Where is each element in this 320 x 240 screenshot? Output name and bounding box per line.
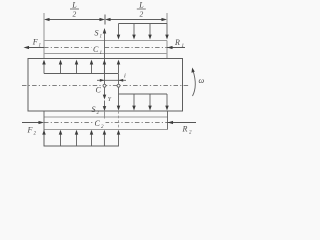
svg-text:R: R (174, 38, 180, 47)
svg-text:1: 1 (100, 51, 103, 56)
label C1 (92, 44, 104, 56)
svg-text:1: 1 (39, 44, 42, 49)
center vertical lower (104, 111, 106, 127)
Y axis arrow down (103, 87, 107, 99)
force F1 arrow (24, 38, 45, 50)
distributed load block bottom-left (arrows up) (42, 130, 120, 147)
svg-text:C: C (93, 45, 99, 54)
distributed load block upper-left (arrows up) (42, 60, 120, 74)
svg-text:2: 2 (140, 10, 144, 19)
mid rotation axis dash-dot (22, 85, 190, 87)
lower band top gray line (44, 116, 168, 118)
label C2 (93, 119, 106, 131)
dimension tick center (104, 15, 106, 25)
svg-text:1: 1 (100, 35, 103, 40)
svg-text:1: 1 (182, 44, 185, 49)
force F2 arrow (22, 121, 44, 137)
omega rotation arrow (191, 68, 204, 97)
upper band top gray line (44, 40, 167, 42)
reaction R2 arrow (168, 121, 197, 136)
rotor body rectangle (28, 59, 183, 112)
svg-text:ω: ω (199, 76, 205, 85)
distributed load block mid-right (arrows down) (117, 74, 169, 111)
svg-text:2: 2 (97, 111, 100, 116)
band edge vertical left (43, 111, 45, 147)
svg-text:F: F (27, 126, 33, 135)
label S1 (95, 29, 103, 40)
axis C2 dash-dot (44, 122, 168, 124)
svg-text:L: L (71, 1, 77, 10)
eccentricity i arrow (97, 73, 126, 82)
label S2 (92, 105, 100, 116)
extension line left x=44 (43, 13, 45, 59)
svg-text:2: 2 (34, 132, 37, 137)
svg-text:C: C (96, 86, 102, 95)
extension line right x=167 (166, 13, 168, 24)
label L/2 left (70, 1, 79, 19)
axis C1 dash-dot (44, 47, 167, 49)
reaction R1 arrow (167, 38, 185, 49)
svg-text:L: L (138, 1, 144, 10)
svg-text:2: 2 (189, 131, 192, 136)
offset axis continuation below (118, 111, 120, 128)
svg-text:F: F (32, 38, 38, 47)
dimension line L/2 right (105, 18, 167, 21)
svg-text:2: 2 (73, 10, 77, 19)
svg-text:R: R (182, 125, 188, 134)
svg-text:S: S (92, 105, 96, 114)
svg-text:S: S (95, 29, 99, 38)
upper band bottom gray line (44, 53, 167, 55)
axis S2 vertical with down arrow (103, 101, 107, 112)
distributed load block top-right (arrows down) (117, 24, 169, 40)
centroid C circle (103, 84, 106, 87)
offset point circle on axis (117, 84, 120, 87)
svg-text:C: C (95, 119, 101, 128)
axis S1 vertical with up arrow (103, 28, 107, 84)
label L/2 right (137, 1, 146, 19)
dimension line L/2 left (44, 18, 105, 21)
lower band bottom gray line (44, 129, 168, 131)
band edge vertical right (167, 111, 169, 130)
svg-text:Y: Y (108, 97, 112, 103)
svg-text:i: i (124, 73, 126, 80)
